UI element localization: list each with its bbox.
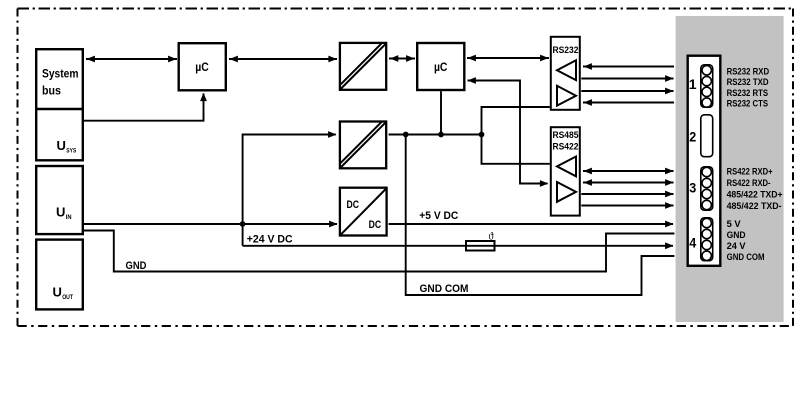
node junction on O2 bus (GND COM tap) <box>403 132 409 138</box>
node junction on O2 bus (uC2 stub) <box>438 132 444 138</box>
wire U_SYS to uC1 <box>84 94 204 121</box>
svg-text:GND: GND <box>126 260 147 272</box>
RS232 receiver triangle <box>557 60 576 80</box>
frame: dash-dot border top <box>18 8 794 10</box>
frame: dash-dot border right <box>792 9 794 327</box>
svg-text:U: U <box>56 205 65 220</box>
svg-text:RS232 TXD: RS232 TXD <box>727 77 769 87</box>
wire RS232 RXD <box>583 66 674 68</box>
separator System bus / U_SYS <box>35 108 84 110</box>
pin group 2 <box>701 115 713 157</box>
svg-text:485/422 TXD+: 485/422 TXD+ <box>727 190 783 200</box>
block System bus / U_SYS <box>36 49 83 160</box>
svg-text:SYS: SYS <box>66 148 77 155</box>
wire 485/422 TXD+ <box>581 193 673 195</box>
wire +5 V DC rail <box>389 223 673 225</box>
svg-text:µC: µC <box>195 60 209 74</box>
svg-text:GND COM: GND COM <box>727 252 765 262</box>
optocoupler O1 diagonal 2 <box>341 44 382 85</box>
driver block RS485/RS422 <box>551 127 580 215</box>
svg-text:RS422 RXD+: RS422 RXD+ <box>727 167 773 177</box>
svg-text:24 V: 24 V <box>727 241 746 251</box>
svg-text:DC: DC <box>347 199 360 211</box>
svg-text:1: 1 <box>689 76 697 92</box>
pin group 1 <box>701 65 713 107</box>
svg-text:bus: bus <box>42 86 61 98</box>
svg-text:3: 3 <box>689 180 696 196</box>
wire uC2 bottom stub <box>440 91 442 134</box>
wire RS232 RTS <box>581 90 673 92</box>
svg-text:RS232 CTS: RS232 CTS <box>727 98 769 108</box>
optocoupler O2 diagonal 2 <box>341 122 382 163</box>
svg-text:RS232 RTS: RS232 RTS <box>727 88 769 98</box>
wire uC2 to RS485 (bidirectional) <box>468 81 548 184</box>
svg-text:2: 2 <box>689 129 696 145</box>
svg-text:OUT: OUT <box>62 294 73 301</box>
svg-text:RS232: RS232 <box>553 45 579 55</box>
DC/DC converter <box>340 188 387 236</box>
wire RS422 RXD+ (bidirectional) <box>583 170 674 172</box>
svg-text:U: U <box>53 285 62 300</box>
wire O2 output bus <box>389 134 482 136</box>
wire System bus to uC1 (bidirectional) <box>86 58 177 60</box>
svg-text:DC: DC <box>369 219 382 231</box>
wire uC1 to O1 (bidirectional) <box>229 58 337 60</box>
svg-text:GND COM: GND COM <box>420 283 469 295</box>
microcontroller uC1 <box>179 43 226 90</box>
wire RS232 driver input feed <box>482 107 550 135</box>
svg-text:+5 V DC: +5 V DC <box>419 210 458 222</box>
wire 24V riser to O2 <box>243 135 336 246</box>
optocoupler O2 diagonal 1 <box>341 122 386 167</box>
svg-text:RS485: RS485 <box>553 130 579 140</box>
wire GND COM <box>406 135 675 296</box>
svg-text:485/422 TXD-: 485/422 TXD- <box>727 201 782 211</box>
wire 485/422 TXD- <box>581 205 673 207</box>
wire RS422 RXD- (bidirectional) <box>583 182 674 184</box>
microcontroller uC2 <box>417 43 464 90</box>
svg-text:4: 4 <box>689 234 696 250</box>
frame: dash-dot border left <box>17 9 19 327</box>
RS485 driver triangle <box>557 182 576 202</box>
wire GND <box>84 231 674 272</box>
wire RS485 driver input feed <box>482 135 550 164</box>
pin group 4 <box>701 218 713 261</box>
pin group 3 <box>701 167 713 210</box>
svg-text:ϑ: ϑ <box>489 232 494 243</box>
wire +24 V DC rail <box>243 245 673 247</box>
wire RS232 TXD <box>581 78 673 80</box>
driver block RS232 <box>551 37 580 110</box>
svg-text:System: System <box>42 69 79 81</box>
optocoupler O1 <box>340 43 386 90</box>
node junction U_IN / 24V riser <box>240 221 246 227</box>
svg-text:U: U <box>57 138 66 153</box>
svg-text:µC: µC <box>434 60 448 74</box>
wire O1 to uC2 (bidirectional) <box>389 58 415 60</box>
DC/DC diagonal <box>341 189 386 235</box>
frame: dash-dot border bottom <box>18 325 794 327</box>
svg-text:RS232 RXD: RS232 RXD <box>727 67 770 77</box>
RS232 driver triangle <box>557 86 576 106</box>
connector panel background <box>676 16 784 322</box>
connector body <box>688 56 721 266</box>
RS485 receiver triangle <box>557 157 576 177</box>
svg-text:RS422: RS422 <box>553 142 579 152</box>
block U_IN <box>36 166 83 234</box>
optocoupler O1 diagonal 1 <box>341 44 386 89</box>
block U_OUT <box>36 240 83 310</box>
svg-text:IN: IN <box>66 214 72 221</box>
wire uC2 to RS232 (bidirectional) <box>467 57 549 59</box>
svg-text:GND: GND <box>727 230 746 240</box>
optocoupler O2 <box>340 122 386 169</box>
wire RS232 CTS <box>583 102 674 104</box>
svg-text:5 V: 5 V <box>727 219 741 229</box>
wire U_IN to DC/DC <box>84 223 337 225</box>
fuse thermal (PTC) <box>466 241 495 251</box>
svg-text:+24 V DC: +24 V DC <box>247 233 293 245</box>
node junction on O2 bus (driver feeds) <box>479 132 485 138</box>
svg-text:RS422 RXD-: RS422 RXD- <box>727 178 771 188</box>
